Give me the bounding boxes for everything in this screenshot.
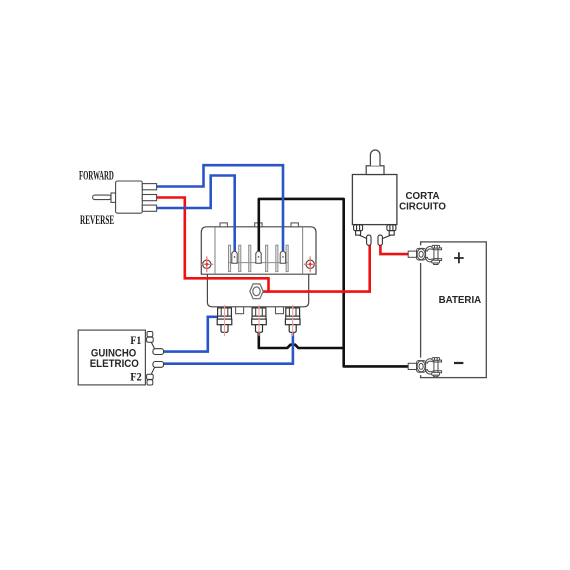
breaker lead left [360,235,368,239]
upper housing top tab 3 [291,223,298,227]
wire black: solenoid middle stud to negative trunk (hop over blue) [259,330,344,348]
switch terminal 1 [142,184,156,190]
svg-text:FORWARD: FORWARD [79,168,114,183]
battery minus symbol [454,362,463,364]
battery positive clamp [408,245,441,264]
breaker lead right [382,235,390,239]
winch lug F1 [153,349,164,355]
winch lug F2 [153,362,164,368]
winch stud F1 [147,332,154,343]
winch lug F1 tail [151,342,154,349]
battery negative clamp [408,358,441,377]
switch body [116,181,143,213]
rail base bar [229,262,288,264]
wire blue: switch top to solenoid right blade [157,165,283,253]
switch lever [93,195,111,200]
breaker terminal tab right [378,235,382,245]
upper housing inner wall right [302,227,304,273]
wire red: switch centre to solenoid centre stud [157,198,269,292]
wire blue: switch bottom to solenoid left blade [157,176,235,254]
blade terminal 3 [280,251,285,263]
centre stud hex nut [250,284,263,299]
winch solenoid pack U1 : lower housing [207,273,308,306]
battery plus symbol [454,252,464,263]
svg-text:ELETRICO: ELETRICO [90,358,140,370]
toggle switch S1 [93,181,157,213]
battery BT1 body [421,242,487,378]
switch terminal 2 [142,195,156,201]
mounting ear left [200,256,213,272]
mounting ear right [304,256,317,272]
breaker terminal tab left [367,235,371,245]
svg-text:CIRCUITO: CIRCUITO [399,202,446,213]
bottom stud 1 [217,305,232,336]
upper housing top tab 2 [255,223,262,227]
winch solenoid pack U1 : upper housing [201,227,316,274]
breaker stud right [387,225,396,235]
solenoid lower housing tab right [276,307,284,314]
winch lug F2 tail [151,367,154,374]
switch terminal 3 [142,205,156,211]
breaker stud left [354,225,363,235]
circuit breaker CB1 body [352,175,397,225]
solenoid lower housing tab left [236,307,244,314]
centre stud hole [253,287,260,296]
winch motor box [78,330,145,385]
bottom stud 2 [252,305,267,336]
winch stud F2 [147,374,154,385]
wire blue: winch F2 to solenoid right stud [163,331,293,364]
bottom stud 3 [285,305,300,336]
blade terminal 2 [256,251,261,263]
switch collar [111,193,116,202]
svg-text:BATERIA: BATERIA [439,294,482,306]
wire black: solenoid middle blade to battery negative [259,199,409,367]
terminal rail fins [229,245,289,271]
wire red: breaker to battery positive [380,245,409,255]
wire red: solenoid centre stud to breaker [263,245,370,292]
breaker dome button [370,150,380,166]
svg-text:F2: F2 [130,370,142,384]
upper housing inner wall left [214,227,216,273]
svg-text:F1: F1 [130,333,141,347]
blade terminal 1 [232,251,237,263]
breaker neck [366,166,384,175]
upper housing top tab 1 [220,223,227,227]
wire blue: winch F1 to solenoid left stud [163,317,220,352]
svg-text:REVERSE: REVERSE [80,212,114,227]
